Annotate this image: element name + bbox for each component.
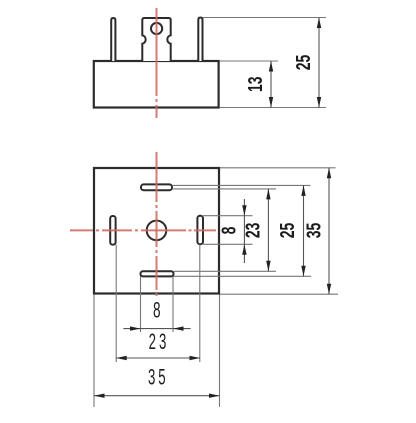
extension line body top [220, 60, 279, 62]
dimension 25 line (top view) [317, 18, 321, 108]
dimension 35 line (bottom) [94, 394, 220, 398]
dimension 25 line (right side) [301, 185, 305, 276]
right pin [198, 18, 202, 62]
svg-text:8: 8 [153, 297, 161, 322]
left pin [111, 18, 115, 61]
svg-text:13: 13 [243, 76, 266, 92]
ext top slot inner [172, 188, 276, 190]
square body outline [94, 168, 219, 294]
top terminal slot [141, 184, 172, 190]
ext right slot inner [199, 244, 201, 362]
ext square bottom [220, 293, 338, 295]
dimension 13 line [269, 61, 273, 108]
body outline (top view) [94, 61, 219, 108]
ext bottom slot inner [174, 270, 277, 272]
horizontal centerline (red) [70, 229, 216, 231]
right-side extension lines [172, 168, 338, 294]
dimension 35 line (right side) [327, 168, 331, 294]
tab hole [151, 23, 162, 34]
ext top slot outer [172, 184, 311, 186]
right terminal slot [197, 216, 203, 244]
center mounting hole [147, 221, 167, 241]
svg-text:35: 35 [302, 222, 325, 238]
left terminal slot [110, 216, 115, 245]
ext bottom slot right end [172, 276, 174, 332]
vertical centerline (red) [156, 152, 158, 298]
extension line pin top [203, 17, 327, 19]
bottom extension lines [94, 244, 220, 407]
ext left slot inner [115, 245, 117, 362]
ext right slot top [203, 215, 253, 217]
ext square left [93, 295, 95, 408]
svg-text:25: 25 [275, 222, 298, 238]
svg-text:23: 23 [241, 223, 264, 239]
centerline (top view, red) [156, 8, 158, 118]
ext right slot bottom [203, 243, 253, 245]
svg-text:23: 23 [149, 329, 170, 353]
svg-text:35: 35 [148, 365, 169, 389]
svg-text:25: 25 [291, 54, 314, 70]
ext bottom slot outer [174, 275, 312, 277]
ext square top [220, 167, 336, 169]
svg-text:8: 8 [217, 226, 240, 234]
extension line body bottom [220, 107, 327, 109]
ext square right [219, 295, 221, 408]
dimension 8 line (right side) [242, 199, 246, 263]
dimension 8 line (bottom) [123, 326, 190, 330]
ext bottom slot left end [140, 276, 142, 332]
mounting tab [142, 18, 170, 61]
dimension 23 line (bottom) [116, 356, 200, 360]
bottom terminal slot [141, 271, 174, 276]
dimension 23 line (right side) [266, 189, 270, 271]
